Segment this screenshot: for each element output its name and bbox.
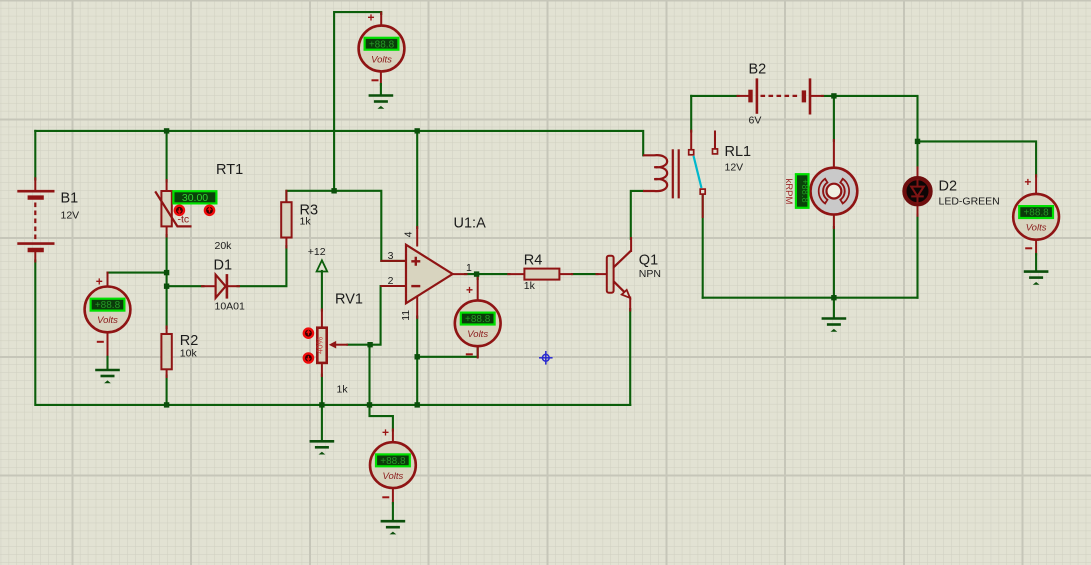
node junction 370,345 — [367, 342, 372, 347]
node junction 322,405 — [319, 402, 324, 407]
pin VM1 minus — [380, 71, 382, 85]
button RT1 down — [175, 206, 184, 215]
button RV1 down — [304, 353, 313, 362]
wire op-amp output to R4 — [465, 273, 510, 275]
pin RV1 top — [321, 310, 323, 329]
wire B1 bottom to ground bus — [35, 261, 630, 405]
wire wiper junction down to ground bus — [368, 345, 370, 405]
ground right section — [822, 319, 847, 332]
wire ground stem right — [833, 298, 835, 317]
node junction 834,298 — [831, 295, 836, 300]
label VM5 minus — [1025, 247, 1032, 249]
wire RV1 bottom — [321, 375, 323, 405]
potentiometer RV1 — [314, 328, 348, 363]
button RT1 up — [205, 206, 214, 215]
relay switch RL1 — [689, 149, 718, 194]
node origin marker — [539, 351, 553, 365]
ground under VM1 — [369, 96, 394, 109]
pin B2 right — [811, 95, 823, 97]
wire VM1 minus to ground — [380, 84, 382, 95]
wire R4 to Q1 base — [572, 273, 598, 275]
pin op-amp 2 — [381, 285, 405, 287]
pin B1 bottom — [34, 252, 36, 262]
svg-text:+: + — [367, 11, 374, 25]
pin R3 top — [285, 191, 287, 203]
label VM1 minus — [372, 79, 379, 81]
battery B1 — [17, 191, 54, 250]
pin D1 anode — [202, 285, 216, 287]
pin op-amp 3 — [381, 260, 405, 262]
pin op-amp 11 — [416, 296, 418, 318]
svg-text:6V: 6V — [749, 115, 762, 127]
node junction 417,405 — [415, 402, 420, 407]
pin RV1 bottom — [321, 363, 323, 377]
pin R4 right — [559, 273, 573, 275]
pin R2 bottom — [166, 369, 168, 378]
pin op-amp 4 — [416, 227, 418, 245]
svg-text:NPN: NPN — [639, 268, 661, 280]
pin D1 cathode — [227, 285, 239, 287]
svg-text:Volts: Volts — [97, 315, 118, 326]
pin VM1 plus — [380, 13, 382, 27]
wire op-amp pin 4 — [416, 131, 418, 228]
pin B2 left — [738, 95, 750, 97]
pin relay common bottom — [702, 195, 704, 218]
node junction 334,191 — [331, 188, 336, 193]
wire bottom right bus — [703, 297, 918, 299]
wire B2 bus left — [691, 95, 738, 97]
pin relay pole — [690, 131, 692, 150]
svg-text:3: 3 — [388, 250, 394, 262]
pin RT1 bottom — [166, 226, 168, 237]
wire ground stem below RV1 — [321, 405, 323, 441]
wire relay pole up to B2 bus — [690, 96, 692, 132]
svg-text:1k: 1k — [524, 280, 536, 292]
battery B2 — [751, 78, 811, 114]
svg-text:+88.8: +88.8 — [380, 456, 406, 467]
node junction 918,141 — [915, 139, 920, 144]
pin VM2 minus — [107, 331, 109, 357]
wire voltmeter VM2 plus — [108, 272, 167, 274]
display motor kRPM — [796, 174, 809, 208]
ground under VM5 — [1024, 272, 1049, 285]
node junction 834,96 — [831, 93, 836, 98]
pin R4 left — [508, 273, 525, 275]
svg-text:+88.8: +88.8 — [800, 179, 810, 203]
relay coil L1 — [643, 149, 679, 198]
pin relay throw nc — [714, 132, 716, 149]
wire motor top — [833, 96, 835, 141]
svg-text:Volts: Volts — [383, 471, 404, 482]
resistor R2 — [161, 334, 171, 369]
label VM2 minus — [97, 341, 104, 343]
pin D2 top — [917, 167, 919, 177]
ground under VM2 — [95, 370, 120, 383]
svg-text:RV1: RV1 — [335, 292, 363, 308]
svg-text:B1: B1 — [61, 191, 79, 207]
wire Q1 emitter down — [629, 309, 631, 405]
pin VM4 plus — [392, 430, 394, 443]
svg-text:kRPM: kRPM — [783, 179, 794, 205]
pin VM3 minus — [477, 346, 479, 358]
wire VM5 plus — [918, 141, 1037, 176]
pin motor bottom — [833, 214, 835, 228]
voltmeter VM4 — [370, 442, 416, 488]
wire RT1 to R2 — [166, 235, 168, 328]
button RV1 up — [304, 329, 313, 338]
svg-text:Q1: Q1 — [639, 253, 658, 269]
svg-text:U1:A: U1:A — [454, 216, 487, 232]
svg-text:2: 2 — [388, 275, 394, 287]
pin R2 top — [166, 327, 168, 336]
svg-text:Volts: Volts — [467, 329, 488, 340]
svg-text:+: + — [96, 275, 103, 289]
wire D1 anode — [167, 285, 204, 287]
wire coil bottom to Q1 collector — [631, 191, 643, 239]
svg-text:+: + — [466, 283, 473, 297]
wire op-amp pin 2 to RV1 wiper — [348, 286, 405, 345]
svg-text:10A01: 10A01 — [215, 301, 246, 313]
pin RT1 top — [166, 180, 168, 192]
svg-text:1: 1 — [466, 262, 472, 274]
wire R3 top to op-amp pin 3 — [286, 191, 404, 261]
svg-text:4: 4 — [403, 231, 415, 237]
svg-text:LED-GREEN: LED-GREEN — [939, 196, 1000, 208]
svg-text:R4: R4 — [524, 253, 543, 269]
wire top voltmeter VM1 — [334, 12, 381, 191]
wire motor bottom — [833, 227, 835, 298]
svg-text:D1: D1 — [214, 258, 233, 274]
power symbol +12 — [317, 260, 328, 271]
resistor R3 — [281, 202, 291, 237]
wire D1 cathode to R3 — [238, 246, 287, 286]
diode D1 — [216, 274, 227, 299]
wire relay throw down to bottom bus — [702, 196, 704, 298]
svg-text:B2: B2 — [749, 62, 767, 78]
svg-text:D2: D2 — [939, 179, 958, 195]
label VM4 minus — [382, 496, 389, 498]
pin Q1 emitter vertical — [629, 298, 631, 311]
ground under VM4 — [381, 521, 406, 534]
node junction 167,131 — [164, 128, 169, 133]
pin VM3 plus — [477, 276, 479, 302]
node junction 417,357 — [415, 354, 420, 359]
svg-text:1k: 1k — [300, 216, 312, 228]
svg-text:12V: 12V — [61, 210, 80, 222]
wire op-amp pin 11 down — [416, 317, 418, 405]
ground under RV1 — [310, 441, 335, 454]
svg-text:11: 11 — [400, 310, 412, 321]
wire top bus B1 to relay coil — [35, 131, 643, 155]
node junction 167,286 — [164, 284, 169, 289]
pin B1 top — [34, 178, 36, 191]
pin D2 bottom — [917, 206, 919, 216]
svg-text:RL1: RL1 — [725, 144, 752, 160]
svg-text:R2: R2 — [180, 333, 199, 349]
node junction 417,131 — [415, 128, 420, 133]
wire B2 bus right — [822, 96, 918, 141]
svg-text:1k: 1k — [337, 384, 349, 396]
wire B1 top — [34, 131, 36, 180]
wire VM4 minus to ground — [392, 503, 394, 521]
node junction 167,273 — [164, 270, 169, 275]
voltmeter VM2 — [85, 287, 131, 333]
svg-text:+88.8: +88.8 — [369, 39, 395, 50]
svg-text:RT1: RT1 — [216, 162, 243, 178]
svg-text:Volts: Volts — [1026, 223, 1047, 234]
svg-text:12V: 12V — [725, 162, 744, 174]
pin R3 bottom — [285, 237, 287, 248]
svg-text:+12: +12 — [308, 246, 326, 258]
voltmeter VM1 — [359, 26, 405, 72]
wire VM2 minus to ground — [106, 357, 108, 369]
led D2 — [904, 178, 930, 204]
svg-text:+88.8: +88.8 — [465, 314, 491, 325]
resistor R4 — [524, 269, 559, 280]
pin op-amp 1 output — [452, 273, 466, 275]
svg-text:20k: 20k — [215, 240, 233, 252]
pin Q1 base — [597, 273, 608, 275]
svg-text:30.00: 30.00 — [182, 192, 208, 204]
pin motor top — [833, 140, 835, 169]
wire ground bus to VM4 — [370, 405, 393, 431]
op-amp U1:A — [406, 245, 453, 304]
pin VM5 plus — [1035, 175, 1037, 195]
wire VM5 minus to ground — [1035, 254, 1037, 271]
pin Q1 collector vertical — [630, 238, 632, 251]
svg-text:+88.8: +88.8 — [95, 300, 121, 311]
node junction 370,405 — [367, 402, 372, 407]
voltmeter VM3 — [455, 300, 501, 346]
svg-text:+: + — [1024, 175, 1031, 189]
svg-text:40%: 40% — [314, 336, 324, 353]
label VM3 minus — [466, 353, 473, 355]
svg-text:+88.8: +88.8 — [1023, 208, 1049, 219]
node junction 167,405 — [164, 402, 169, 407]
voltmeter VM5 — [1013, 194, 1059, 240]
pin VM2 plus — [107, 273, 109, 288]
wire voltmeter VM3 minus — [417, 347, 478, 357]
transistor Q1 — [607, 251, 631, 298]
svg-text:Volts: Volts — [371, 54, 392, 65]
wire +12 to RV1 — [321, 271, 323, 311]
display RT1 temperature — [173, 191, 216, 203]
motor M1 — [811, 168, 858, 215]
svg-text:10k: 10k — [180, 348, 198, 360]
wire LED D2 top — [916, 141, 918, 168]
wire R2 bottom — [166, 376, 168, 405]
node junction 477,274 — [474, 271, 479, 276]
pin VM4 minus — [392, 488, 394, 504]
pin VM5 minus — [1035, 239, 1037, 255]
wire LED D2 bottom — [916, 215, 918, 298]
svg-text:+: + — [382, 426, 389, 440]
thermistor RT1 — [155, 191, 191, 226]
wire RT1 branch vertical — [166, 131, 168, 182]
wire VM3 plus pin — [477, 274, 479, 279]
